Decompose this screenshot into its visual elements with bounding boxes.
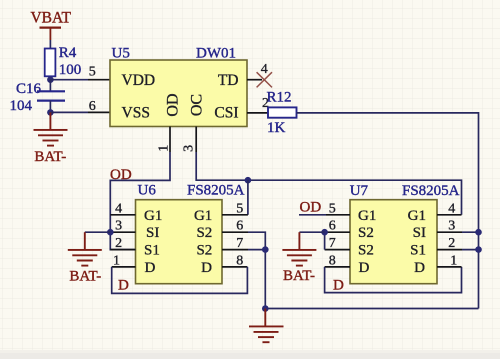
value label FS8205A (U7) <box>402 183 460 199</box>
resistor R4 <box>45 45 82 78</box>
wire U7 pin2 to rail <box>462 249 479 251</box>
svg-text:G1: G1 <box>144 208 162 224</box>
svg-text:BAT-: BAT- <box>34 149 66 165</box>
wire U6 D wrap (pin1 to pin8) <box>112 267 248 294</box>
svg-text:C16: C16 <box>16 81 42 97</box>
svg-text:3: 3 <box>448 219 455 234</box>
net label D (U6) <box>118 278 129 294</box>
U6 pin 3 stub <box>110 219 135 234</box>
U6 pin 7 stub <box>222 236 248 251</box>
wire VBAT to R4 <box>49 40 51 49</box>
svg-text:4: 4 <box>261 62 268 77</box>
svg-text:OC: OC <box>188 94 205 116</box>
pin 4 TD stub <box>247 62 268 80</box>
svg-text:D: D <box>145 260 156 276</box>
svg-text:S2: S2 <box>358 225 374 241</box>
wire U7 pin3 to rail <box>462 231 479 233</box>
svg-text:S1: S1 <box>144 243 160 259</box>
net label BAT- (U7) <box>283 268 315 284</box>
svg-text:FS8205A: FS8205A <box>402 183 460 199</box>
svg-text:4: 4 <box>448 201 455 216</box>
ground BAT- (left of U7) <box>282 232 316 265</box>
svg-text:U5: U5 <box>112 46 130 62</box>
U7 pin 8 stub <box>325 253 350 268</box>
svg-text:S1: S1 <box>410 243 426 259</box>
mosfet U6 FS8205A body <box>136 182 223 283</box>
wire node to U5 pin 5 <box>50 79 88 81</box>
wire U6 pin6 to center rail <box>248 232 265 308</box>
svg-text:R4: R4 <box>59 45 77 61</box>
pin name VSS <box>122 105 150 122</box>
svg-text:5: 5 <box>236 201 243 216</box>
wire U7 pin7 up to pin6 node <box>324 232 326 249</box>
power port VBAT <box>30 10 71 41</box>
pin 1 OD stub (U5 bottom) <box>157 127 172 153</box>
no-connect X on TD <box>257 72 272 87</box>
resistor R12 <box>267 90 297 136</box>
op IC U5 DW01 body <box>110 46 247 127</box>
pin name OD (rotated) <box>165 93 182 116</box>
net label D (U7) <box>333 278 344 294</box>
node junction pin3/rail <box>475 229 482 236</box>
svg-text:TD: TD <box>218 72 239 89</box>
U7 pin 2 stub <box>437 236 462 251</box>
wire OD net U5 to U6 <box>110 152 170 250</box>
svg-text:2: 2 <box>115 236 122 251</box>
svg-text:8: 8 <box>329 253 336 268</box>
svg-text:OD: OD <box>165 93 182 116</box>
pin 3 OC stub (U5 bottom) <box>181 127 196 153</box>
node junction OD / BAT- (U6 pin 3) <box>107 229 114 236</box>
pin 6 VSS stub <box>88 99 110 114</box>
U6 pin names left G1 SI S1 D <box>144 208 162 276</box>
svg-text:6: 6 <box>329 219 336 234</box>
value label FS8205A (U6) <box>187 182 245 198</box>
U7 pin 7 stub <box>325 236 350 251</box>
svg-text:100: 100 <box>59 62 82 78</box>
pin name OC (rotated) <box>188 94 205 116</box>
svg-text:BAT-: BAT- <box>69 268 101 284</box>
svg-text:SI: SI <box>146 225 159 241</box>
node junction C16/VSS/ground <box>47 109 54 116</box>
svg-text:3: 3 <box>115 219 122 234</box>
wire R12 to right rail <box>297 113 479 309</box>
svg-text:5: 5 <box>329 201 336 216</box>
pin name TD <box>218 72 239 89</box>
U7 pin 5 stub with wire <box>299 201 350 216</box>
U6 pin 5 stub <box>222 201 248 216</box>
U7 pin names right G1 SI S1 D <box>408 208 426 276</box>
wire U7 node to ground <box>299 231 324 233</box>
svg-text:U7: U7 <box>350 183 369 199</box>
svg-text:VDD: VDD <box>122 72 156 89</box>
svg-text:D: D <box>201 260 212 276</box>
node junction U7 pin6/pin7 <box>321 229 328 236</box>
svg-text:8: 8 <box>236 253 243 268</box>
svg-text:G1: G1 <box>358 208 376 224</box>
U6 pin 4 stub <box>110 201 135 216</box>
svg-text:VBAT: VBAT <box>30 10 71 27</box>
svg-text:1: 1 <box>450 253 457 268</box>
wire node to U5 pin 6 <box>50 111 88 113</box>
wire bottom rail to center <box>265 308 478 310</box>
net label OD <box>110 167 132 183</box>
U7 pin 6 stub <box>325 219 350 234</box>
U6 pin 6 stub <box>222 219 248 234</box>
node junction R4/C16/pin5 <box>47 76 54 83</box>
svg-text:VSS: VSS <box>122 105 150 122</box>
svg-text:CSI: CSI <box>214 105 238 122</box>
svg-text:S2: S2 <box>358 243 374 259</box>
pin 2 CSI stub <box>247 96 269 113</box>
svg-text:D: D <box>333 278 344 294</box>
net label BAT- (U6) <box>69 268 101 284</box>
svg-text:DW01: DW01 <box>196 46 236 62</box>
U6 pin 2 stub <box>110 236 135 251</box>
svg-text:SI: SI <box>413 225 426 241</box>
svg-text:1: 1 <box>113 253 120 268</box>
svg-text:U6: U6 <box>138 182 157 198</box>
svg-text:BAT-: BAT- <box>283 268 315 284</box>
wire OC junction down to U6 pin 5 <box>247 180 249 215</box>
svg-text:104: 104 <box>10 98 33 114</box>
svg-text:1: 1 <box>157 145 172 152</box>
pin name VDD <box>122 72 156 89</box>
svg-text:6: 6 <box>89 99 96 114</box>
svg-text:D: D <box>118 278 129 294</box>
wire node to C16 <box>49 80 51 92</box>
net label OD (U7 pin5) <box>300 200 322 216</box>
ground BAT- (left of C16) <box>34 112 68 145</box>
ground BAT- (left of U6) <box>68 232 102 265</box>
svg-text:D: D <box>414 260 425 276</box>
ground (bottom center) <box>249 309 284 343</box>
svg-text:3: 3 <box>181 145 196 152</box>
net label BAT- <box>34 149 66 165</box>
U6 pin 1 stub <box>112 253 136 268</box>
node junction OC / U6 pin5 <box>245 177 252 184</box>
U7 pin 3 stub <box>437 219 462 234</box>
wire U6 pin3 node to ground <box>85 231 111 233</box>
svg-text:G1: G1 <box>408 208 426 224</box>
node junction pin2/rail <box>475 246 482 253</box>
wire C16 to node <box>49 101 51 113</box>
node junction U6 pin7 / rail <box>262 246 269 253</box>
svg-text:5: 5 <box>89 65 96 80</box>
U6 pin 8 stub <box>222 253 247 268</box>
pin name CSI <box>214 105 238 122</box>
svg-text:7: 7 <box>236 236 243 251</box>
svg-text:OD: OD <box>300 200 322 216</box>
svg-text:R12: R12 <box>267 90 292 106</box>
U7 pin names left G1 S2 S2 D <box>358 208 376 276</box>
svg-text:D: D <box>359 260 370 276</box>
svg-text:S2: S2 <box>196 225 212 241</box>
wire OC net U5 to U7 pin4 <box>196 152 461 215</box>
value label DW01 <box>196 46 236 62</box>
svg-text:OD: OD <box>110 167 132 183</box>
mosfet U7 FS8205A body <box>350 183 437 284</box>
U6 pin names right G1 S2 S2 D <box>194 208 212 276</box>
wire U7 D wrap (pin8 to pin1) <box>325 267 462 293</box>
svg-text:G1: G1 <box>194 208 212 224</box>
svg-text:S2: S2 <box>196 243 212 259</box>
svg-text:7: 7 <box>329 236 336 251</box>
svg-text:2: 2 <box>448 236 455 251</box>
node junction bottom center <box>262 305 269 312</box>
wire U6 pin7 to center rail <box>248 249 265 251</box>
svg-text:4: 4 <box>115 201 122 216</box>
svg-text:6: 6 <box>236 219 243 234</box>
U7 pin 1 stub <box>437 253 462 268</box>
svg-text:FS8205A: FS8205A <box>187 182 245 198</box>
svg-text:1K: 1K <box>267 120 286 136</box>
U7 pin 4 stub <box>437 201 462 216</box>
pin 5 VDD stub <box>88 65 110 80</box>
capacitor C16 <box>10 81 66 114</box>
